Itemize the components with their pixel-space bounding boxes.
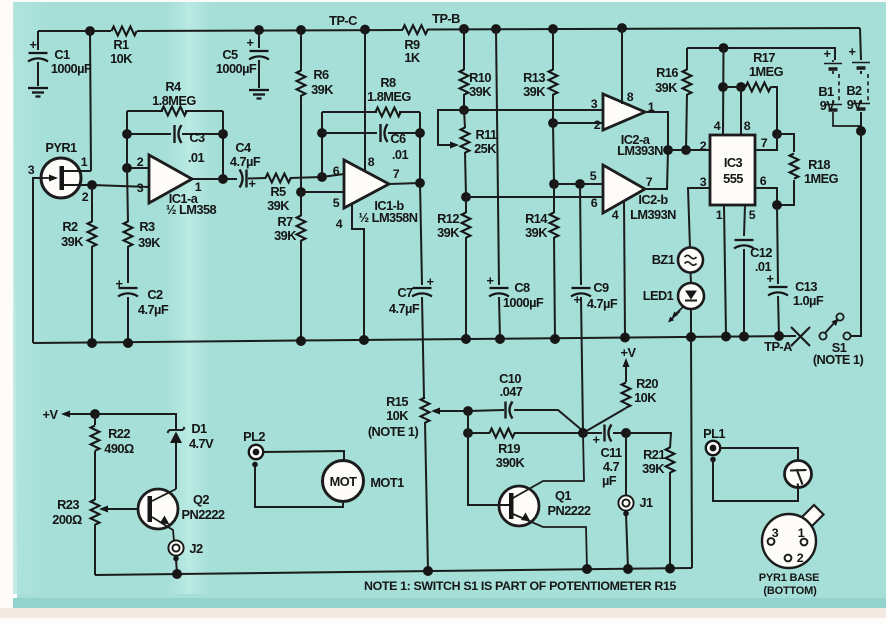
svg-text:4.7V: 4.7V xyxy=(189,436,214,451)
svg-text:2: 2 xyxy=(797,551,804,565)
svg-text:2: 2 xyxy=(137,155,144,169)
svg-text:R5: R5 xyxy=(270,184,286,199)
svg-text:R20: R20 xyxy=(636,376,658,391)
svg-text:8: 8 xyxy=(744,119,751,133)
capacitor C1 xyxy=(28,31,92,86)
svg-text:10K: 10K xyxy=(386,408,409,423)
node TP-A test point xyxy=(764,327,810,354)
junction dot IC1-b output xyxy=(389,178,425,188)
ground (C5) xyxy=(249,90,269,99)
junction dots bottom rail xyxy=(172,564,675,580)
svg-text:5: 5 xyxy=(333,196,340,210)
svg-text:1.8MEG: 1.8MEG xyxy=(152,93,196,108)
svg-text:PN2222: PN2222 xyxy=(548,503,591,518)
svg-text:+: + xyxy=(487,273,494,288)
wire IC2-b pin5 xyxy=(554,183,603,185)
svg-text:R7: R7 xyxy=(277,214,293,229)
svg-text:+: + xyxy=(767,271,774,286)
wire IC1-b pin8 to TP-C xyxy=(364,30,366,172)
svg-text:4: 4 xyxy=(612,208,619,222)
svg-text:5: 5 xyxy=(590,169,597,183)
zener D1 xyxy=(168,421,215,489)
wire IC1-b pin4 xyxy=(352,204,364,340)
power flag +V (R20) xyxy=(621,345,637,371)
svg-text:555: 555 xyxy=(723,171,743,186)
op-amp IC1-a xyxy=(137,155,217,217)
junction dot pin6/R18/C13 xyxy=(772,200,782,210)
resistor R13 xyxy=(523,24,558,123)
capacitor C11 xyxy=(583,425,626,489)
capacitor C5 xyxy=(216,25,269,88)
svg-text:+: + xyxy=(247,35,254,50)
power flag +V (left) xyxy=(43,407,95,422)
svg-text:R21: R21 xyxy=(643,447,665,462)
svg-text:4: 4 xyxy=(714,119,721,133)
svg-text:6: 6 xyxy=(760,174,767,188)
wire top supply bus xyxy=(38,28,860,31)
svg-text:.01: .01 xyxy=(392,147,409,162)
svg-text:9V: 9V xyxy=(820,98,836,113)
svg-text:39K: 39K xyxy=(437,225,460,240)
svg-text:R23: R23 xyxy=(57,497,79,512)
svg-text:7: 7 xyxy=(646,175,653,189)
svg-text:490Ω: 490Ω xyxy=(104,441,134,456)
wire PYR1 pin3 to lower bus xyxy=(33,178,43,343)
svg-text:25K: 25K xyxy=(474,141,497,156)
svg-text:.047: .047 xyxy=(500,384,523,399)
junction dot R5/IC1-b pin6 xyxy=(317,172,327,182)
svg-text:39K: 39K xyxy=(655,80,678,95)
capacitor C7 xyxy=(389,183,434,399)
svg-text:R2: R2 xyxy=(62,219,78,234)
svg-text:R22: R22 xyxy=(108,426,130,441)
switch S1 xyxy=(813,313,864,367)
svg-text:1MEG: 1MEG xyxy=(749,64,784,79)
svg-text:R12: R12 xyxy=(437,211,459,226)
svg-text:C8: C8 xyxy=(514,280,530,295)
svg-text:10K: 10K xyxy=(110,51,133,66)
svg-text:+: + xyxy=(116,276,123,291)
battery case dashes xyxy=(839,74,868,102)
resistor R21 xyxy=(626,433,674,568)
wire IC3 pin4 riser xyxy=(722,48,725,135)
svg-text:7: 7 xyxy=(393,167,400,181)
svg-text:R19: R19 xyxy=(498,441,520,456)
buzzer BZ1 xyxy=(652,248,703,273)
junction dots TP-A rail xyxy=(87,331,784,348)
svg-text:LM393N: LM393N xyxy=(617,143,663,158)
junction dot R15 wiper node xyxy=(463,406,473,438)
svg-text:.01: .01 xyxy=(188,150,205,165)
resistor R20 xyxy=(583,371,658,433)
resistor R2 xyxy=(61,185,96,343)
capacitor C4 xyxy=(223,140,266,191)
svg-text:39K: 39K xyxy=(525,225,548,240)
svg-text:4: 4 xyxy=(336,217,343,231)
svg-text:MOT1: MOT1 xyxy=(370,475,404,490)
svg-text:µF: µF xyxy=(602,473,617,488)
wire IC2-b pin4 to bus xyxy=(624,202,625,336)
wire IC2-a pin3 with R11 wiper jog xyxy=(438,110,603,149)
wire IC3 pin1 to bus xyxy=(724,205,726,336)
svg-text:R17: R17 xyxy=(753,50,775,65)
svg-text:+V: +V xyxy=(621,345,637,360)
wire IC3 pin3 to buzzer xyxy=(688,188,710,248)
plug PL2 xyxy=(243,429,265,467)
svg-text:1.8MEG: 1.8MEG xyxy=(367,89,411,104)
wire battery negative to S1 xyxy=(851,131,861,336)
svg-text:+: + xyxy=(30,37,37,52)
svg-text:39K: 39K xyxy=(274,228,297,243)
wire bottom rail xyxy=(95,568,692,575)
svg-text:R4: R4 xyxy=(165,79,182,94)
resistor R22 xyxy=(91,414,134,500)
sensor PYR1 xyxy=(28,140,91,204)
comparator IC2-b xyxy=(590,165,676,222)
svg-text:LED1: LED1 xyxy=(643,288,674,303)
lamp load (PL1 loop) xyxy=(713,448,812,501)
junction dot Q1 collector node xyxy=(578,428,588,438)
svg-text:C3: C3 xyxy=(189,130,205,145)
jack J2 xyxy=(168,540,203,574)
potentiometer R11 xyxy=(461,110,498,197)
svg-text:R1: R1 xyxy=(113,37,129,52)
resistor R6 xyxy=(296,25,334,192)
resistor R4 xyxy=(127,79,223,115)
svg-text:R11: R11 xyxy=(475,127,497,142)
svg-text:PL2: PL2 xyxy=(243,429,265,444)
capacitor C8 xyxy=(487,24,544,339)
svg-text:+V: +V xyxy=(43,407,59,422)
junction dots IC2-b pin5 nodes xyxy=(549,179,585,189)
junction dot R22 top xyxy=(90,409,100,419)
junction dot R10/R11 xyxy=(459,105,469,115)
svg-text:½ LM358: ½ LM358 xyxy=(166,202,217,217)
junction dot (PYR1 pin1 / R1 / C1) xyxy=(85,26,95,36)
wire IC3 pin2 xyxy=(668,149,710,151)
svg-text:J1: J1 xyxy=(639,495,653,510)
node TP-B xyxy=(432,11,469,34)
svg-text:3: 3 xyxy=(772,526,779,540)
IC3 555 timer xyxy=(700,119,768,222)
wire PYR1 pin1 to top bus xyxy=(90,31,91,171)
transistor Q2 xyxy=(138,489,225,541)
resistor R19 xyxy=(468,429,583,470)
wire BZ1 to LED1 xyxy=(690,273,693,284)
svg-text:39K: 39K xyxy=(267,198,290,213)
svg-text:390K: 390K xyxy=(496,455,526,470)
resistor R3 xyxy=(124,168,162,283)
svg-text:1K: 1K xyxy=(404,50,421,65)
wire PYR1 pin2 to IC1-a pin3 xyxy=(92,185,149,187)
svg-text:TP-A: TP-A xyxy=(764,339,792,354)
svg-text:R16: R16 xyxy=(656,65,678,80)
transistor Q1 xyxy=(468,433,591,569)
svg-text:39K: 39K xyxy=(61,234,84,249)
svg-text:7: 7 xyxy=(761,136,768,150)
comparator IC2-a xyxy=(591,90,663,158)
svg-text:3: 3 xyxy=(700,175,707,189)
svg-text:1MEG: 1MEG xyxy=(804,171,839,186)
note text xyxy=(364,579,677,593)
resistor R10 xyxy=(459,24,492,110)
battery B2 xyxy=(846,28,870,132)
svg-text:(BOTTOM): (BOTTOM) xyxy=(763,585,817,597)
plug PL1 xyxy=(703,426,725,462)
svg-text:R6: R6 xyxy=(313,67,329,82)
wire IC1-a feedback verticals xyxy=(127,111,223,179)
resistor R8 xyxy=(322,75,420,116)
svg-text:PN2222: PN2222 xyxy=(182,507,225,522)
svg-text:R13: R13 xyxy=(523,70,545,85)
potentiometer R23 xyxy=(52,497,148,575)
svg-text:2: 2 xyxy=(594,118,601,132)
wire IC2-a pin8 to bus xyxy=(617,23,627,104)
junction dot pin4 riser xyxy=(719,43,729,53)
svg-text:½ LM358N: ½ LM358N xyxy=(359,210,418,225)
resistor R5 xyxy=(266,174,323,213)
svg-text:+: + xyxy=(824,46,831,61)
svg-text:(NOTE 1): (NOTE 1) xyxy=(368,424,419,439)
svg-text:R10: R10 xyxy=(469,70,491,85)
junction dot R16 bottom xyxy=(681,145,691,155)
wire IC2-b output xyxy=(645,150,668,189)
svg-text:9V: 9V xyxy=(847,97,863,112)
resistor R17 xyxy=(746,50,784,134)
junction dot C11/J1/R21 xyxy=(621,428,631,438)
capacitor C6 xyxy=(317,124,425,162)
junction dots pin4/pin8 top xyxy=(718,82,746,92)
ground (C1) xyxy=(28,88,48,97)
svg-text:B2: B2 xyxy=(846,83,862,98)
capacitor C10 xyxy=(468,371,583,431)
wire IC2-a pin2 xyxy=(553,122,603,124)
svg-text:3: 3 xyxy=(137,181,144,195)
svg-text:4.7µF: 4.7µF xyxy=(587,296,618,311)
junction dot PYR1 pin2 xyxy=(87,180,97,190)
svg-text:8: 8 xyxy=(368,155,375,169)
node TP-C xyxy=(329,13,370,34)
wire IC2-b pin6 xyxy=(466,196,603,198)
capacitor C2 xyxy=(116,276,169,343)
junction dot R13/pin2 xyxy=(548,118,558,128)
svg-text:1.0µF: 1.0µF xyxy=(793,293,824,308)
svg-text:2: 2 xyxy=(700,139,707,153)
svg-text:TP-B: TP-B xyxy=(432,11,460,26)
resistor R16 xyxy=(655,48,691,150)
wire IC2-a output xyxy=(645,112,668,150)
wire IC1-b feedback verticals xyxy=(322,112,420,183)
wire IC1-a pin2 xyxy=(122,163,149,173)
svg-text:C2: C2 xyxy=(147,287,163,302)
svg-text:+: + xyxy=(849,44,856,59)
svg-text:PL1: PL1 xyxy=(703,426,725,441)
wire IC3 pin6 xyxy=(755,188,777,205)
junction dot R11/R12/pin6 xyxy=(461,192,471,202)
resistor R7 xyxy=(274,192,305,341)
svg-text:1: 1 xyxy=(798,526,805,540)
wire +V to D1 xyxy=(95,414,176,429)
svg-text:10K: 10K xyxy=(634,390,657,405)
jack J1 xyxy=(618,433,653,569)
svg-text:TP-C: TP-C xyxy=(329,13,357,28)
svg-text:NOTE 1: SWITCH S1 IS PART OF: NOTE 1: SWITCH S1 IS PART OF POTENTIOMET… xyxy=(364,579,677,593)
svg-text:C13: C13 xyxy=(795,279,817,294)
svg-text:C4: C4 xyxy=(235,140,252,155)
svg-text:+: + xyxy=(249,176,256,191)
junction dot R6/R7/pin5 xyxy=(296,187,306,197)
svg-text:2: 2 xyxy=(82,190,89,204)
svg-text:B1: B1 xyxy=(818,84,834,99)
connector PYR1 base (bottom view) xyxy=(759,505,824,597)
svg-text:1000µF: 1000µF xyxy=(503,295,544,310)
capacitor C12 xyxy=(734,205,772,336)
svg-text:MOT: MOT xyxy=(330,474,358,489)
svg-text:39K: 39K xyxy=(523,84,546,99)
wire IC3 pin8 xyxy=(740,87,742,135)
wire supply to R16/R17/B1 xyxy=(687,48,835,60)
op-amp IC1-b xyxy=(322,155,418,231)
svg-text:5: 5 xyxy=(749,208,756,222)
svg-text:IC2-b: IC2-b xyxy=(638,192,668,207)
wire IC3 pin7 xyxy=(755,134,777,150)
potentiometer R15 xyxy=(368,394,468,571)
svg-text:R3: R3 xyxy=(139,219,155,234)
svg-text:200Ω: 200Ω xyxy=(52,512,82,527)
svg-text:C12: C12 xyxy=(750,245,772,260)
resistor R14 xyxy=(525,184,558,339)
svg-text:39K: 39K xyxy=(138,235,161,250)
svg-text:39K: 39K xyxy=(642,461,665,476)
wire R13 to pin5 node xyxy=(553,123,554,184)
svg-text:IC3: IC3 xyxy=(724,155,743,170)
svg-text:Q2: Q2 xyxy=(193,492,209,507)
svg-text:+: + xyxy=(593,432,600,447)
wire LED1 to bus and bottom rail xyxy=(691,309,692,568)
svg-text:8: 8 xyxy=(627,90,634,104)
svg-text:C11: C11 xyxy=(600,445,622,460)
svg-text:39K: 39K xyxy=(469,84,492,99)
svg-text:3: 3 xyxy=(28,163,35,177)
svg-text:1: 1 xyxy=(716,208,723,222)
svg-text:1000µF: 1000µF xyxy=(51,61,92,76)
wire mid TP-A rail xyxy=(33,336,796,343)
svg-text:C5: C5 xyxy=(222,47,238,62)
resistor R1 xyxy=(110,27,137,66)
resistor R9 xyxy=(403,25,428,65)
svg-text:C7: C7 xyxy=(397,285,413,300)
capacitor C9 xyxy=(571,184,618,433)
svg-text:J2: J2 xyxy=(189,541,203,556)
svg-text:3: 3 xyxy=(591,97,598,111)
resistor R12 xyxy=(437,197,470,339)
motor MOT1 xyxy=(255,451,404,507)
svg-text:C6: C6 xyxy=(390,131,406,146)
svg-text:R18: R18 xyxy=(808,157,830,172)
svg-text:C1: C1 xyxy=(54,47,70,62)
resistor R18 xyxy=(777,134,839,205)
svg-text:1000µF: 1000µF xyxy=(216,61,257,76)
svg-text:+: + xyxy=(427,274,434,289)
capacitor C3 xyxy=(122,125,228,165)
svg-text:BZ1: BZ1 xyxy=(652,252,675,267)
svg-text:PYR1: PYR1 xyxy=(45,140,77,155)
svg-text:R14: R14 xyxy=(525,211,548,226)
junction dot comparator outputs xyxy=(663,145,673,155)
svg-text:D1: D1 xyxy=(191,421,207,436)
junction dot battery negative xyxy=(856,126,866,136)
svg-text:4.7µF: 4.7µF xyxy=(138,302,169,317)
svg-text:4.7: 4.7 xyxy=(603,459,620,474)
svg-text:4.7µF: 4.7µF xyxy=(389,301,420,316)
battery B1 xyxy=(818,46,861,126)
svg-text:+: + xyxy=(574,292,581,307)
LED LED1 xyxy=(643,283,704,323)
svg-text:PYR1 BASE: PYR1 BASE xyxy=(759,572,820,584)
svg-text:(NOTE 1): (NOTE 1) xyxy=(813,352,864,367)
capacitor C13 xyxy=(767,205,824,336)
svg-text:R8: R8 xyxy=(380,75,396,90)
junction dot IC1-a output xyxy=(192,174,228,184)
svg-text:C9: C9 xyxy=(593,280,609,295)
junction dot R17/pin7/R18 xyxy=(772,129,782,139)
svg-text:LM393N: LM393N xyxy=(630,207,676,222)
svg-text:39K: 39K xyxy=(311,82,334,97)
svg-text:Q1: Q1 xyxy=(555,488,571,503)
svg-text:4.7µF: 4.7µF xyxy=(230,154,261,169)
svg-text:R15: R15 xyxy=(386,394,408,409)
wire IC1-b pin5 xyxy=(301,191,344,193)
svg-text:6: 6 xyxy=(591,196,598,210)
svg-text:1: 1 xyxy=(81,155,88,169)
svg-text:6: 6 xyxy=(333,164,340,178)
